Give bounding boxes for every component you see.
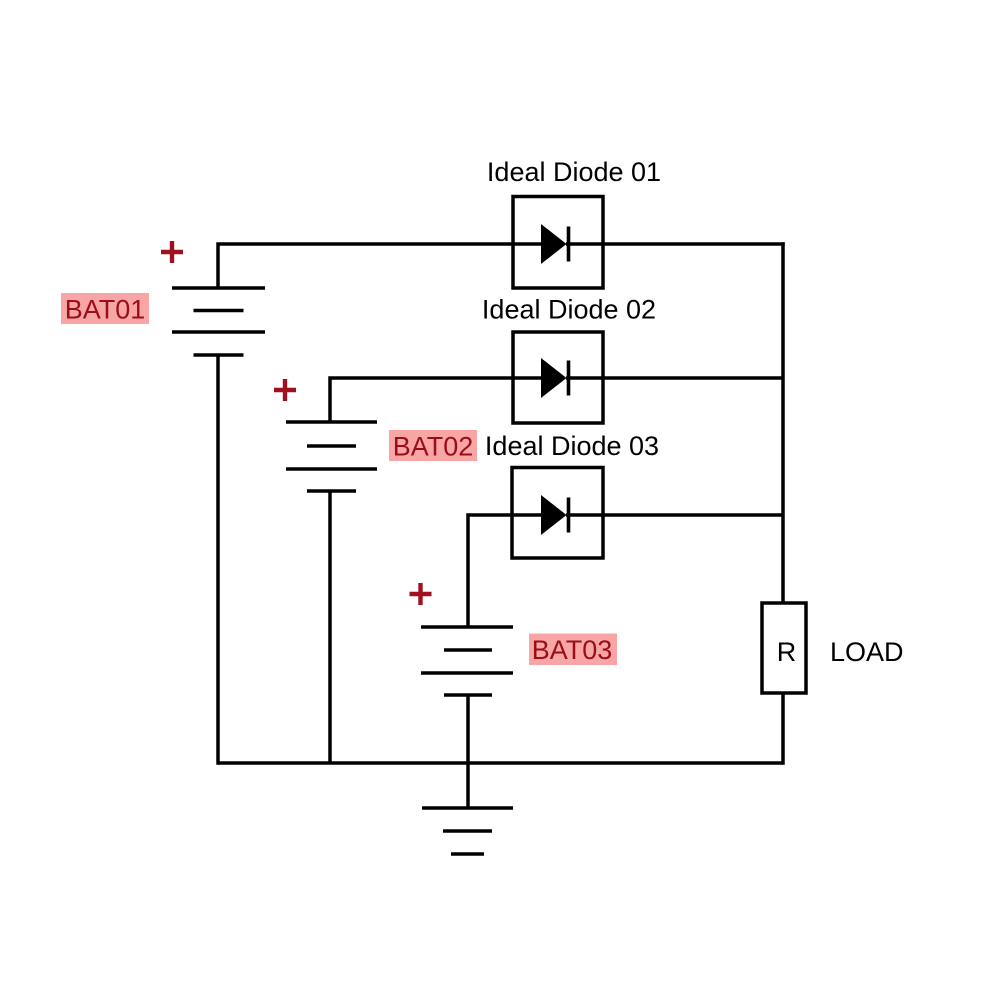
svg-text:BAT01: BAT01 xyxy=(65,295,146,325)
label BAT03 xyxy=(529,634,617,666)
svg-text:LOAD: LOAD xyxy=(830,637,904,667)
svg-text:Ideal Diode 02: Ideal Diode 02 xyxy=(482,295,656,325)
polarity plus BAT03 xyxy=(410,583,432,605)
battery BAT01 xyxy=(172,288,265,355)
svg-text:Ideal Diode 01: Ideal Diode 01 xyxy=(487,157,661,187)
ideal diode U1 box xyxy=(513,197,603,289)
diode D1 symbol xyxy=(541,224,569,264)
diode D2 symbol xyxy=(541,358,569,398)
wire BAT01 negative terminal to bottom bus xyxy=(216,355,220,765)
polarity plus BAT01 xyxy=(161,241,183,263)
wire BAT02 positive terminal to diode D2 anode xyxy=(330,378,541,422)
diode D3 symbol xyxy=(541,495,569,535)
wire D2 cathode to right bus xyxy=(566,376,783,380)
wire bottom bus node xyxy=(218,761,783,765)
wire D1 cathode to right bus xyxy=(566,242,785,246)
battery BAT03 xyxy=(421,627,513,695)
ideal diode U3 box xyxy=(512,468,603,559)
wire BAT02 negative terminal to bottom bus xyxy=(328,491,332,763)
svg-text:R: R xyxy=(777,637,797,667)
svg-text:BAT03: BAT03 xyxy=(532,635,613,665)
battery BAT02 xyxy=(286,422,377,491)
resistor R load xyxy=(762,603,806,693)
svg-text:Ideal Diode 03: Ideal Diode 03 xyxy=(485,431,659,461)
ideal diode U2 box xyxy=(513,332,603,423)
wire D3 cathode to right bus xyxy=(566,513,783,517)
label BAT01 xyxy=(61,293,149,325)
wire load bottom to bottom bus xyxy=(781,693,785,765)
wire BAT03 positive terminal to diode D3 anode xyxy=(468,515,541,627)
ground xyxy=(422,808,513,854)
svg-text:BAT02: BAT02 xyxy=(393,432,474,462)
wire BAT01 positive terminal to diode D1 anode xyxy=(218,244,541,288)
wire right bus node xyxy=(781,242,785,603)
wire BAT03 negative terminal to ground xyxy=(466,695,470,808)
polarity plus BAT02 xyxy=(274,379,296,401)
label BAT02 xyxy=(389,430,477,462)
